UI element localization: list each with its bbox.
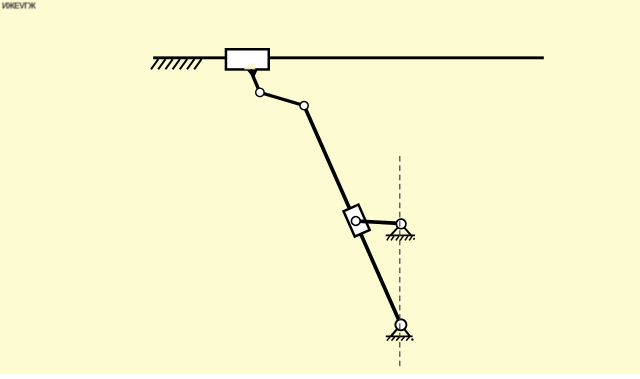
pivot wedge at slider bottom bbox=[247, 70, 258, 79]
bottom support hatch dot bbox=[411, 338, 413, 340]
joint C bbox=[256, 88, 264, 96]
mid support ground hatching bbox=[387, 236, 415, 240]
ghost artifact inside slider bbox=[244, 63, 255, 69]
ground hatching top-left bbox=[151, 59, 202, 69]
joint D bbox=[300, 101, 308, 109]
fixed pin G bbox=[396, 219, 406, 229]
pin E in sliding block bbox=[351, 217, 360, 226]
horizontal link E-G bbox=[356, 221, 401, 224]
bottom support base line bbox=[386, 335, 413, 337]
watermark bbox=[2, 2, 36, 11]
bottom support ground hatching bbox=[387, 337, 410, 341]
sliding block E on long link (rotated) bbox=[344, 205, 370, 237]
slider block B on rail bbox=[226, 49, 269, 69]
mid support base line bbox=[386, 234, 415, 236]
fixed guide rail line bbox=[153, 56, 544, 59]
svg-text:ИЖЕVГЖ: ИЖЕVГЖ bbox=[2, 2, 36, 11]
long link D-F (through sliding block) bbox=[304, 106, 401, 325]
mid support triangle legs bbox=[391, 224, 411, 235]
link C-D bbox=[260, 92, 304, 105]
vertical dashed centerline bbox=[399, 156, 401, 369]
link B-C (from slider to joint C) bbox=[250, 70, 260, 93]
fixed pin F bbox=[395, 319, 406, 330]
bottom support triangle legs bbox=[391, 325, 410, 337]
